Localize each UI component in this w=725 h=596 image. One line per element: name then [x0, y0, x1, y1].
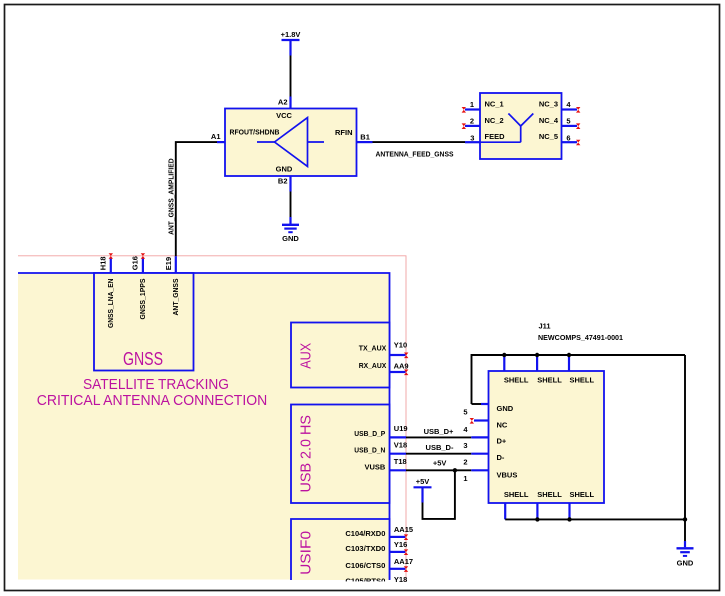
svg-text:3: 3: [470, 134, 474, 143]
svg-text:NEWCOMPS_47491-0001: NEWCOMPS_47491-0001: [538, 333, 623, 342]
no-connect X pin5: [576, 123, 580, 129]
svg-text:5: 5: [566, 117, 570, 126]
pin B1 (RFIN): [357, 133, 373, 142]
svg-text:SATELLITE TRACKING: SATELLITE TRACKING: [83, 376, 229, 393]
pin H18 (GNSS_LNA_EN): [98, 256, 115, 328]
svg-text:1: 1: [470, 100, 474, 109]
svg-text:5: 5: [463, 407, 467, 416]
no-connect X pin2: [462, 123, 466, 129]
svg-text:2: 2: [470, 117, 474, 126]
svg-text:GNSS_1PPS: GNSS_1PPS: [138, 279, 147, 320]
svg-text:NC_3: NC_3: [539, 100, 558, 109]
svg-text:USB_D_P: USB_D_P: [354, 429, 385, 438]
svg-text:H18: H18: [98, 256, 107, 270]
antenna pin 3 FEED: [465, 132, 505, 143]
svg-text:+5V: +5V: [433, 458, 447, 467]
svg-text:E19: E19: [164, 257, 173, 270]
svg-text:NC: NC: [497, 420, 508, 429]
ground symbol GND (below LNA): [282, 217, 299, 243]
J11 pin 4 NC: [463, 420, 508, 434]
wire net ANTENNA_FEED_GNSS (B1 to antenna FEED): [373, 142, 466, 158]
svg-text:SHELL: SHELL: [570, 375, 595, 384]
svg-text:ANT_GNSS: ANT_GNSS: [171, 279, 180, 316]
svg-text:SHELL: SHELL: [537, 375, 562, 384]
connector J11: [489, 321, 624, 503]
junction dots bottom shell bus: [535, 517, 539, 521]
no-connect X pin4: [576, 107, 580, 113]
wire right side to ground: [684, 355, 686, 541]
junction dots top shell bus: [502, 353, 506, 357]
svg-text:Y16: Y16: [394, 540, 407, 549]
J11 pin 1 VBUS: [463, 470, 517, 483]
USIF0 sub-block: [291, 519, 390, 580]
svg-text:GND: GND: [677, 558, 694, 567]
svg-text:3: 3: [463, 441, 467, 450]
pin Y10 (TX_AUX): [359, 340, 407, 355]
power symbol +5V: [414, 477, 432, 503]
no-connect X Y16: [404, 549, 408, 555]
svg-text:Y18: Y18: [394, 575, 407, 584]
pin E19 (ANT_GNSS): [164, 256, 180, 315]
svg-text:U19: U19: [394, 424, 408, 433]
svg-text:SHELL: SHELL: [537, 490, 562, 499]
svg-text:+5V: +5V: [416, 477, 430, 486]
svg-text:V18: V18: [394, 441, 407, 450]
svg-text:SHELL: SHELL: [570, 490, 595, 499]
svg-text:USB_D+: USB_D+: [424, 427, 454, 436]
svg-text:NC_4: NC_4: [539, 116, 559, 125]
svg-text:USB 2.0 HS: USB 2.0 HS: [299, 415, 315, 493]
no-connect X pin1: [462, 107, 466, 113]
svg-text:VUSB: VUSB: [364, 463, 385, 472]
svg-text:FEED: FEED: [485, 132, 506, 141]
svg-text:D-: D-: [497, 453, 505, 462]
wire net USB_D-: [406, 443, 471, 454]
svg-text:2: 2: [463, 458, 467, 467]
svg-text:USB_D-: USB_D-: [426, 443, 454, 452]
GNSS module block (main SoC block, clipped at sheet edge): [18, 273, 390, 580]
svg-text:ANT_GNSS_AMPLIFIED: ANT_GNSS_AMPLIFIED: [166, 158, 175, 235]
no-connect X AA15: [404, 534, 408, 540]
wire shell bottom bus: [505, 518, 685, 520]
svg-text:GND: GND: [282, 234, 299, 243]
no-connect X pin6: [576, 140, 580, 146]
no-connect X H18: [109, 253, 113, 259]
svg-text:AA17: AA17: [394, 557, 413, 566]
svg-text:RFIN: RFIN: [335, 128, 353, 137]
LNA amplifier U1: [225, 109, 357, 177]
svg-text:AA15: AA15: [394, 525, 413, 534]
wire +5V to VBUS net: [423, 470, 455, 519]
svg-text:USB_D_N: USB_D_N: [354, 445, 385, 454]
svg-text:1: 1: [463, 474, 467, 483]
power symbol +1.8V: [281, 30, 301, 56]
highlight box (GNSS critical net region): [18, 256, 406, 582]
svg-text:NC_2: NC_2: [485, 116, 504, 125]
svg-text:T18: T18: [394, 457, 407, 466]
J11 pin 2 D-: [463, 453, 505, 467]
svg-text:J11: J11: [539, 321, 551, 330]
svg-text:USIF0: USIF0: [298, 531, 314, 575]
pin A1 (RFOUT): [211, 132, 225, 142]
wire net +5V (VUSB to VBUS): [406, 458, 471, 470]
svg-text:C104/RXD0: C104/RXD0: [345, 529, 385, 538]
wire net USB_D+: [406, 427, 471, 438]
svg-text:+1.8V: +1.8V: [281, 30, 301, 39]
no-connect X Y10: [404, 353, 408, 359]
pin Y18 (C105/RTS0, clipped at sheet edge): [330, 575, 407, 589]
svg-text:A2: A2: [278, 98, 288, 107]
GNSS sub-block: [94, 273, 194, 371]
svg-text:ANTENNA_FEED_GNSS: ANTENNA_FEED_GNSS: [376, 149, 454, 158]
antenna pin 4 NC_3: [539, 100, 577, 110]
antenna pin 5 NC_4: [539, 116, 577, 126]
antenna block AN1: [480, 93, 562, 159]
svg-text:G16: G16: [131, 256, 140, 270]
pin U19 (USB_D_P): [354, 424, 407, 438]
svg-text:6: 6: [566, 134, 570, 143]
svg-text:D+: D+: [497, 437, 507, 446]
wire net ANT_GNSS_AMPLIFIED (A1 to E19): [166, 142, 217, 256]
junction dot +5V/VBUS: [453, 468, 457, 472]
svg-text:RX_AUX: RX_AUX: [359, 361, 387, 370]
svg-text:Y10: Y10: [394, 340, 407, 349]
svg-text:GND: GND: [276, 165, 293, 174]
USB 2.0 HS sub-block: [291, 405, 390, 504]
pin B2 (GND): [278, 176, 291, 192]
J11 shell pins bottom: [504, 490, 595, 520]
svg-text:CRITICAL ANTENNA CONNECTION: CRITICAL ANTENNA CONNECTION: [37, 392, 268, 409]
wire shell top bus to GND pin: [472, 355, 686, 404]
svg-text:TX_AUX: TX_AUX: [359, 344, 387, 353]
svg-text:GNSS_LNA_EN: GNSS_LNA_EN: [106, 279, 115, 329]
AUX sub-block: [291, 323, 390, 388]
J11 pin 3 D+: [463, 437, 507, 451]
svg-text:B2: B2: [278, 176, 288, 185]
note SATELLITE TRACKING CRITICAL ANTENNA CONNECTION: [37, 376, 268, 409]
J11 shell pins top: [504, 355, 595, 384]
svg-text:SHELL: SHELL: [504, 375, 529, 384]
pin A2 (VCC): [278, 97, 291, 109]
svg-text:RFOUT/SHDNB: RFOUT/SHDNB: [230, 127, 281, 136]
no-connect X G16: [141, 253, 145, 259]
antenna pin 6 NC_5: [539, 132, 577, 143]
svg-text:A1: A1: [211, 132, 221, 141]
antenna pin 1 NC_1: [465, 100, 504, 110]
no-connect X AA17: [404, 566, 408, 572]
no-connect X J11 pin4: [470, 418, 474, 424]
pin G16 (GNSS_1PPS): [131, 256, 148, 319]
wire +1.8V to U1 VCC: [290, 56, 292, 97]
svg-text:AUX: AUX: [298, 343, 314, 369]
svg-text:VBUS: VBUS: [497, 470, 518, 479]
pin AA9 (RX_AUX): [359, 361, 409, 372]
svg-text:AA9: AA9: [394, 362, 409, 371]
J11 pin 5 GND: [463, 404, 513, 416]
pin Y16 (C103/TXD0): [345, 540, 407, 553]
svg-text:C106/CTS0: C106/CTS0: [345, 561, 385, 570]
svg-text:C103/TXD0: C103/TXD0: [345, 544, 385, 553]
ground symbol GND (bottom right): [677, 541, 694, 567]
svg-text:B1: B1: [360, 133, 370, 142]
svg-text:GNSS: GNSS: [123, 349, 163, 369]
svg-text:VCC: VCC: [276, 111, 292, 120]
pin T18 (VUSB): [364, 457, 406, 472]
no-connect X AA9: [404, 370, 408, 376]
svg-text:NC_1: NC_1: [485, 100, 504, 109]
antenna pin 2 NC_2: [465, 116, 504, 126]
svg-text:SHELL: SHELL: [504, 490, 529, 499]
wire B2 to ground: [290, 192, 292, 218]
pin AA15 (C104/RXD0): [345, 525, 413, 538]
svg-text:NC_5: NC_5: [539, 132, 558, 141]
svg-text:GND: GND: [497, 404, 514, 413]
pin V18 (USB_D_N): [354, 441, 407, 455]
pin AA17 (C106/CTS0): [345, 557, 413, 570]
